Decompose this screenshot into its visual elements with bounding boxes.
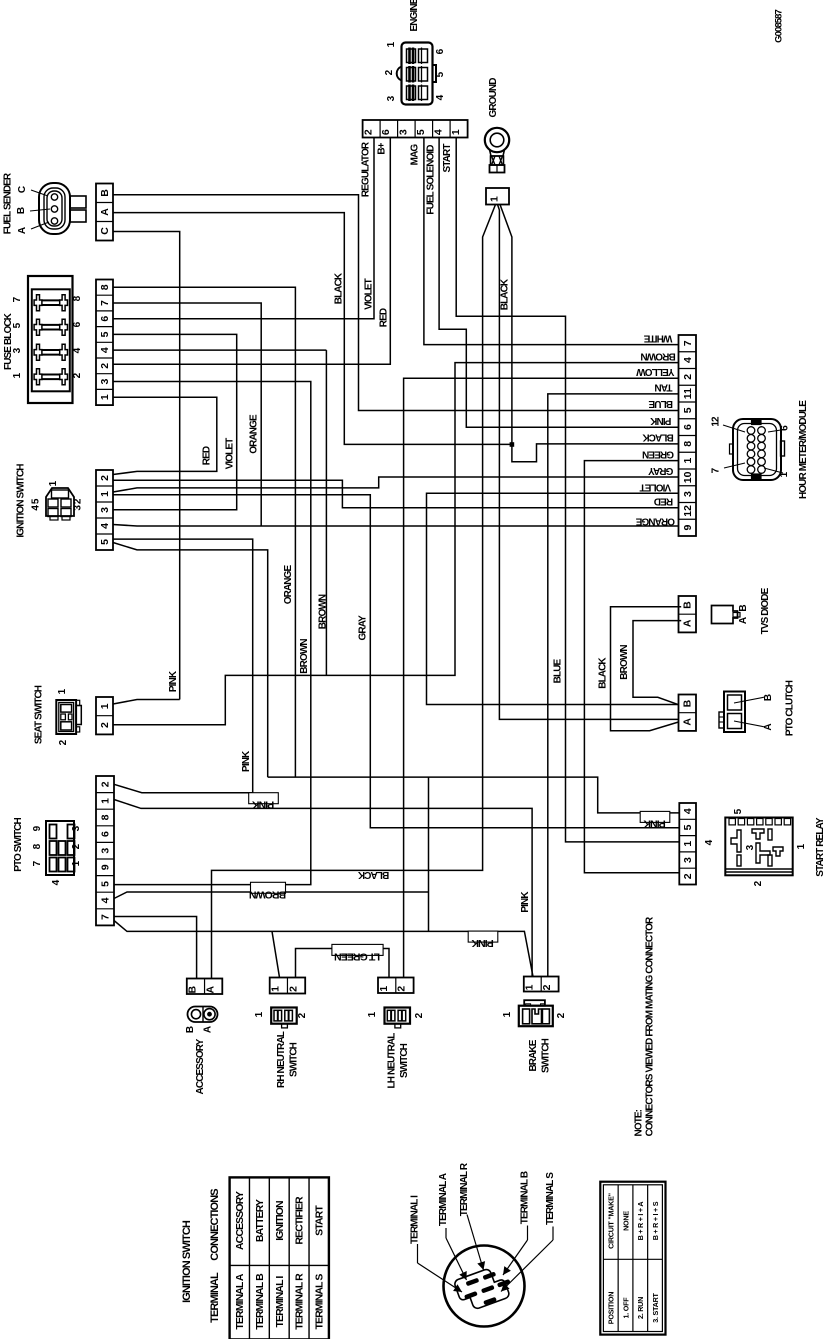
svg-text:ACCESSORY: ACCESSORY (234, 1191, 246, 1250)
svg-text:VIOLET: VIOLET (225, 438, 236, 470)
svg-text:FUSE BLOCK: FUSE BLOCK (3, 312, 14, 370)
connector box engine regulator strip (363, 120, 468, 138)
component PTO switch (46, 821, 74, 875)
svg-text:5: 5 (99, 331, 111, 337)
wire hour-meter 2 YELLOW down to LH neutral 2 (404, 378, 679, 977)
svg-text:RED: RED (202, 446, 213, 465)
svg-text:2: 2 (287, 986, 299, 992)
wire fuse 3 BROWN down to PTO 5 (113, 382, 311, 885)
svg-text:BROWN: BROWN (250, 888, 287, 900)
connector box ignition switch (96, 470, 113, 550)
svg-text:1: 1 (450, 129, 462, 135)
svg-text:POSITION: POSITION (607, 1292, 616, 1324)
svg-text:NONE: NONE (621, 1211, 630, 1231)
svg-text:9: 9 (100, 864, 112, 870)
svg-text:SEAT SWITCH: SEAT SWITCH (34, 685, 45, 744)
svg-text:VIOLET: VIOLET (364, 278, 375, 310)
connector box PTO switch (96, 776, 114, 925)
svg-text:TERMINAL: TERMINAL (209, 1272, 221, 1323)
svg-text:2: 2 (362, 129, 374, 135)
wire ignition 5 PINK to PTO 2 (113, 539, 253, 793)
svg-text:LT GREEN: LT GREEN (335, 950, 380, 962)
svg-text:FUEL SENDER: FUEL SENDER (3, 172, 14, 234)
svg-text:12: 12 (711, 416, 722, 427)
svg-text:BLACK: BLACK (642, 432, 674, 443)
svg-text:B: B (16, 207, 27, 214)
svg-text:2: 2 (682, 374, 694, 380)
svg-text:3: 3 (397, 129, 409, 135)
svg-text:2: 2 (682, 873, 694, 879)
connector box PTO clutch (679, 695, 697, 731)
wire PTO 4 PINK (114, 892, 429, 899)
svg-text:RED: RED (654, 495, 673, 506)
svg-text:START: START (442, 144, 453, 173)
svg-text:11: 11 (682, 388, 694, 399)
svg-text:GRAY: GRAY (648, 465, 674, 476)
svg-text:3: 3 (682, 491, 694, 497)
svg-text:MAG: MAG (410, 144, 421, 166)
svg-text:1: 1 (524, 984, 536, 990)
label PINK interlock wire (boxed) (468, 931, 498, 942)
wire ignition 2 RED to hour-meter 12 (113, 480, 679, 507)
wire fuel-sender B to hour-meter 5 (BLUE) (113, 195, 679, 411)
svg-text:A: A (17, 227, 28, 234)
diagram key switch rear view (444, 1246, 525, 1327)
wire pink interlock horizontal to start relay 4 (268, 777, 680, 813)
label BROWN PTO 5 wire (boxed) (251, 882, 286, 893)
svg-text:3: 3 (99, 378, 111, 384)
svg-text:TERMINAL R: TERMINAL R (294, 1273, 306, 1330)
svg-text:4: 4 (682, 808, 694, 814)
svg-text:BROWN: BROWN (299, 639, 310, 674)
label PINK start relay wire (boxed) (640, 811, 670, 822)
svg-text:A: A (682, 619, 694, 627)
label LT GREEN wire (boxed) (332, 944, 383, 955)
ground ring terminal (485, 128, 509, 152)
svg-text:4 5: 4 5 (31, 498, 42, 511)
svg-text:TERMINAL B: TERMINAL B (520, 1171, 531, 1224)
svg-text:5: 5 (682, 407, 694, 413)
svg-text:ENGINE: ENGINE (409, 0, 420, 31)
svg-text:8: 8 (99, 284, 111, 290)
label PINK PTO 2 wire (boxed) (249, 793, 279, 804)
svg-text:TERMINAL A: TERMINAL A (234, 1273, 246, 1329)
svg-text:ORANGE: ORANGE (283, 565, 294, 605)
svg-text:3: 3 (100, 848, 112, 854)
svg-text:BROWN: BROWN (641, 350, 676, 361)
svg-text:3. START: 3. START (651, 1292, 660, 1322)
svg-text:IGNITION SWITCH: IGNITION SWITCH (181, 1220, 193, 1303)
svg-text:1: 1 (270, 986, 282, 992)
svg-text:BLACK: BLACK (334, 272, 345, 304)
svg-text:LH NEUTRAL: LH NEUTRAL (387, 1033, 398, 1089)
svg-text:B+: B+ (377, 142, 388, 154)
svg-text:A: A (99, 208, 111, 216)
svg-text:4: 4 (432, 129, 444, 135)
svg-text:IGNITION SWITCH: IGNITION SWITCH (16, 464, 27, 538)
svg-text:4: 4 (99, 347, 111, 353)
connector fuel sender 3-pin (39, 183, 70, 234)
wire ignition 1 GRAY down to start relay 5 (113, 495, 679, 828)
wire LT GREEN RH neutral 2 to LH neutral 1 (296, 949, 390, 978)
svg-text:BRAKE: BRAKE (528, 1039, 539, 1071)
wire ground leg right BLACK (500, 205, 512, 445)
wire fuel-sender A BLACK to junction (113, 213, 512, 445)
svg-text:BLACK: BLACK (598, 657, 609, 689)
svg-text:START: START (313, 1205, 325, 1236)
wire RH neutral 1 slant to pink interlock (272, 931, 280, 977)
svg-text:RED: RED (379, 308, 390, 327)
svg-text:SWITCH: SWITCH (541, 1038, 552, 1073)
svg-text:TERMINAL R: TERMINAL R (459, 1162, 470, 1216)
component fuse block (28, 276, 73, 403)
svg-text:FUEL SOLENOID: FUEL SOLENOID (426, 145, 437, 215)
svg-text:C: C (99, 227, 111, 235)
svg-text:A: A (682, 718, 694, 726)
svg-text:5: 5 (415, 129, 427, 135)
connector box ground 1 (486, 188, 509, 205)
svg-text:3 2: 3 2 (73, 498, 84, 511)
svg-text:PINK: PINK (520, 891, 531, 913)
svg-text:WHITE: WHITE (643, 332, 672, 343)
svg-text:TERMINAL A: TERMINAL A (438, 1173, 449, 1226)
svg-text:START RELAY: START RELAY (815, 817, 826, 877)
svg-text:ORANGE: ORANGE (249, 414, 260, 454)
svg-text:B: B (185, 1026, 196, 1033)
svg-text:5: 5 (99, 539, 111, 545)
svg-text:1: 1 (682, 458, 694, 464)
component PTO clutch (724, 692, 745, 733)
svg-text:BLACK: BLACK (357, 869, 389, 880)
svg-text:1: 1 (682, 841, 694, 847)
connector box TVS diode (679, 596, 697, 632)
svg-text:PINK: PINK (168, 670, 179, 692)
svg-text:BLUE: BLUE (553, 658, 564, 683)
svg-text:RH NEUTRAL: RH NEUTRAL (276, 1031, 287, 1088)
component seat switch plug (56, 700, 76, 734)
connector box fuse block 1-8 (96, 280, 113, 406)
wire fuse 5 VIOLET to ignition 3 (113, 334, 237, 509)
wire fuse 4 BROWN (113, 349, 326, 351)
svg-text:PTO SWITCH: PTO SWITCH (13, 818, 24, 872)
wire ignition 5 slant to pink interlock net (113, 543, 268, 778)
wire seat switch 1 slant (113, 700, 180, 705)
wire regulator 6 B+ RED to fuse 2 (113, 138, 390, 365)
svg-text:BLACK: BLACK (500, 278, 511, 310)
component TVS diode (712, 606, 738, 624)
svg-text:8: 8 (682, 441, 694, 447)
svg-text:ACCESSORY: ACCESSORY (195, 1038, 206, 1094)
connector box start relay (679, 803, 696, 885)
connector box LH neutral 1 2 (378, 978, 414, 994)
svg-text:8: 8 (100, 814, 112, 820)
svg-text:2. RUN: 2. RUN (636, 1297, 645, 1319)
wire fuel-sender C PINK down to seat switch 1 (113, 232, 180, 700)
svg-text:B: B (682, 699, 694, 707)
svg-text:4: 4 (99, 523, 111, 529)
connector box seat switch (96, 697, 113, 734)
svg-text:IGNITION: IGNITION (274, 1201, 286, 1241)
svg-text:BROWN: BROWN (318, 594, 329, 629)
wire regulator 5 MAG to hour-meter 7 (WHITE) (424, 138, 679, 345)
svg-text:C: C (17, 186, 28, 193)
connector box brake 1 2 (524, 977, 559, 992)
wire ignition 4 ORANGE to hour-meter 9 (113, 525, 679, 527)
svg-text:GREEN: GREEN (642, 448, 674, 459)
svg-text:6: 6 (380, 129, 392, 135)
wire ground leg left BLACK to accessory A (212, 205, 496, 979)
svg-text:B + R + I + S: B + R + I + S (651, 1201, 660, 1240)
wire pink interlock vertical (428, 777, 430, 931)
connector engine 6-pin (402, 43, 433, 105)
svg-text:6: 6 (100, 831, 112, 837)
svg-text:CONNECTORS VIEWED FROM MATING: CONNECTORS VIEWED FROM MATING CONNECTOR (645, 916, 656, 1136)
wire fuse 8 ORANGE down (113, 287, 295, 777)
svg-text:B + R + I + A: B + R + I + A (636, 1202, 645, 1241)
wire TVS diode A BROWN loop to PTO clutch B (633, 621, 681, 705)
wire regulator 4 FUEL SOLENOID to hour-meter 6 (PINK) (439, 138, 678, 428)
component start relay (725, 818, 792, 876)
svg-text:2: 2 (396, 986, 408, 992)
svg-text:B: B (763, 694, 774, 701)
table circuit make (600, 1182, 665, 1335)
svg-text:7: 7 (682, 340, 694, 346)
junction dot ground/black (510, 442, 515, 447)
connector hour meter 12-pin (733, 419, 781, 480)
svg-text:5: 5 (682, 824, 694, 830)
svg-text:10: 10 (682, 471, 694, 483)
wire fuse 1 RED down to ignition 2 (113, 397, 217, 474)
svg-text:PINK: PINK (643, 817, 666, 829)
svg-text:12: 12 (682, 505, 694, 517)
svg-text:1: 1 (378, 986, 390, 992)
svg-text:A: A (738, 617, 749, 624)
connector box RH neutral 1 2 (270, 978, 306, 994)
svg-text:3: 3 (99, 507, 111, 513)
svg-text:TERMINAL S: TERMINAL S (545, 1172, 556, 1225)
svg-text:PINK: PINK (649, 415, 671, 426)
svg-text:2: 2 (541, 984, 553, 990)
svg-text:PINK: PINK (241, 750, 252, 772)
svg-text:TERMINAL I: TERMINAL I (274, 1276, 286, 1328)
svg-text:SWITCH: SWITCH (289, 1042, 300, 1077)
svg-text:TERMINAL S: TERMINAL S (313, 1274, 325, 1330)
svg-text:CONNECTIONS: CONNECTIONS (209, 1189, 221, 1261)
wire ignition 1 GRAY to hour-meter 10 (113, 477, 679, 492)
svg-text:3: 3 (682, 857, 694, 863)
svg-text:NOTE:: NOTE: (634, 1109, 645, 1136)
svg-text:TERMINAL B: TERMINAL B (254, 1273, 266, 1330)
connector box accessory B A (187, 979, 223, 995)
table ignition switch connections (230, 1177, 329, 1339)
wire seat 2 BROWN to hour-meter 4 (113, 363, 679, 725)
svg-text:6: 6 (99, 316, 111, 322)
wire PTO 7 to accessory B (114, 917, 197, 979)
svg-text:2: 2 (99, 475, 111, 481)
svg-text:A: A (763, 724, 774, 731)
component LH neutral switch plug (385, 1008, 411, 1024)
svg-text:PINK: PINK (471, 937, 494, 949)
svg-text:B: B (738, 605, 749, 612)
svg-text:1: 1 (99, 394, 111, 400)
svg-text:7: 7 (100, 914, 112, 920)
wire PTO 7 slant PINK interlock to brake 1 (114, 921, 533, 977)
svg-text:A: A (204, 986, 216, 994)
svg-text:A: A (203, 1026, 214, 1033)
svg-text:BROWN: BROWN (619, 645, 630, 680)
wire hour-meter 11 TAN to brake 2 (548, 394, 679, 977)
svg-text:B: B (99, 189, 111, 197)
svg-text:SWITCH: SWITCH (399, 1043, 410, 1078)
svg-text:1. OFF: 1. OFF (621, 1297, 630, 1319)
svg-text:BLUE: BLUE (648, 398, 673, 409)
svg-text:4: 4 (682, 357, 694, 363)
svg-text:2: 2 (100, 781, 112, 787)
wire hour-meter 1 GREEN to start relay 2 (584, 461, 679, 873)
connector box fuel sender C A B (96, 184, 113, 241)
svg-text:1: 1 (100, 798, 112, 804)
svg-text:GROUND: GROUND (488, 78, 499, 118)
svg-text:ORANGE: ORANGE (635, 516, 675, 527)
wire TVS diode B BLACK loop to PTO clutch A (611, 607, 682, 731)
svg-text:2: 2 (99, 363, 111, 369)
svg-text:2: 2 (99, 722, 111, 728)
svg-text:B: B (682, 601, 694, 609)
component accessory terminals (188, 1007, 218, 1023)
svg-text:HOUR METER/MODULE: HOUR METER/MODULE (798, 400, 809, 499)
svg-text:6: 6 (682, 424, 694, 430)
wire ground leg middle to PTO clutch A (498, 205, 679, 720)
svg-text:PINK: PINK (251, 799, 274, 811)
svg-text:BATTERY: BATTERY (254, 1199, 266, 1242)
svg-text:PTO CLUTCH: PTO CLUTCH (785, 680, 796, 736)
svg-text:VIOLET: VIOLET (640, 481, 672, 492)
svg-text:B: B (187, 986, 199, 994)
svg-text:1: 1 (99, 491, 111, 497)
svg-text:RECTIFIER: RECTIFIER (294, 1196, 306, 1245)
wire fuse 4 BROWN drop to seat net (325, 350, 327, 675)
svg-text:1: 1 (99, 703, 111, 709)
svg-text:REGULATOR: REGULATOR (361, 141, 372, 197)
svg-text:TERMINAL I: TERMINAL I (410, 1195, 421, 1244)
svg-text:CIRCUIT "MAKE": CIRCUIT "MAKE" (607, 1193, 616, 1249)
wire hour-meter 3 VIOLET to PTO clutch B (427, 493, 679, 704)
wire PTO 1 to brake 1 interlock (114, 800, 532, 977)
svg-text:5: 5 (100, 881, 112, 887)
svg-text:7: 7 (99, 300, 111, 306)
component RH neutral switch plug (271, 1008, 297, 1024)
svg-text:YELLOW: YELLOW (636, 366, 675, 377)
connector box hour meter (679, 335, 697, 536)
wire fuse 7 to ignition 4 (ORANGE) (113, 303, 261, 526)
svg-text:TAN: TAN (655, 382, 673, 393)
component brake switch plug (519, 1006, 553, 1026)
svg-text:G008587: G008587 (774, 9, 785, 42)
wire jog junction to hour-meter 8 (BLACK) (512, 444, 679, 462)
svg-text:TVS DIODE: TVS DIODE (760, 587, 771, 634)
wire regulator 1 START BLUE to start relay 1 (456, 138, 679, 842)
svg-text:4: 4 (100, 897, 112, 903)
wire regulator 2 VIOLET to fuse 6 (113, 138, 374, 319)
connector ignition switch 5-pin (46, 488, 74, 516)
svg-text:9: 9 (682, 525, 694, 531)
svg-text:GRAY: GRAY (357, 615, 368, 641)
